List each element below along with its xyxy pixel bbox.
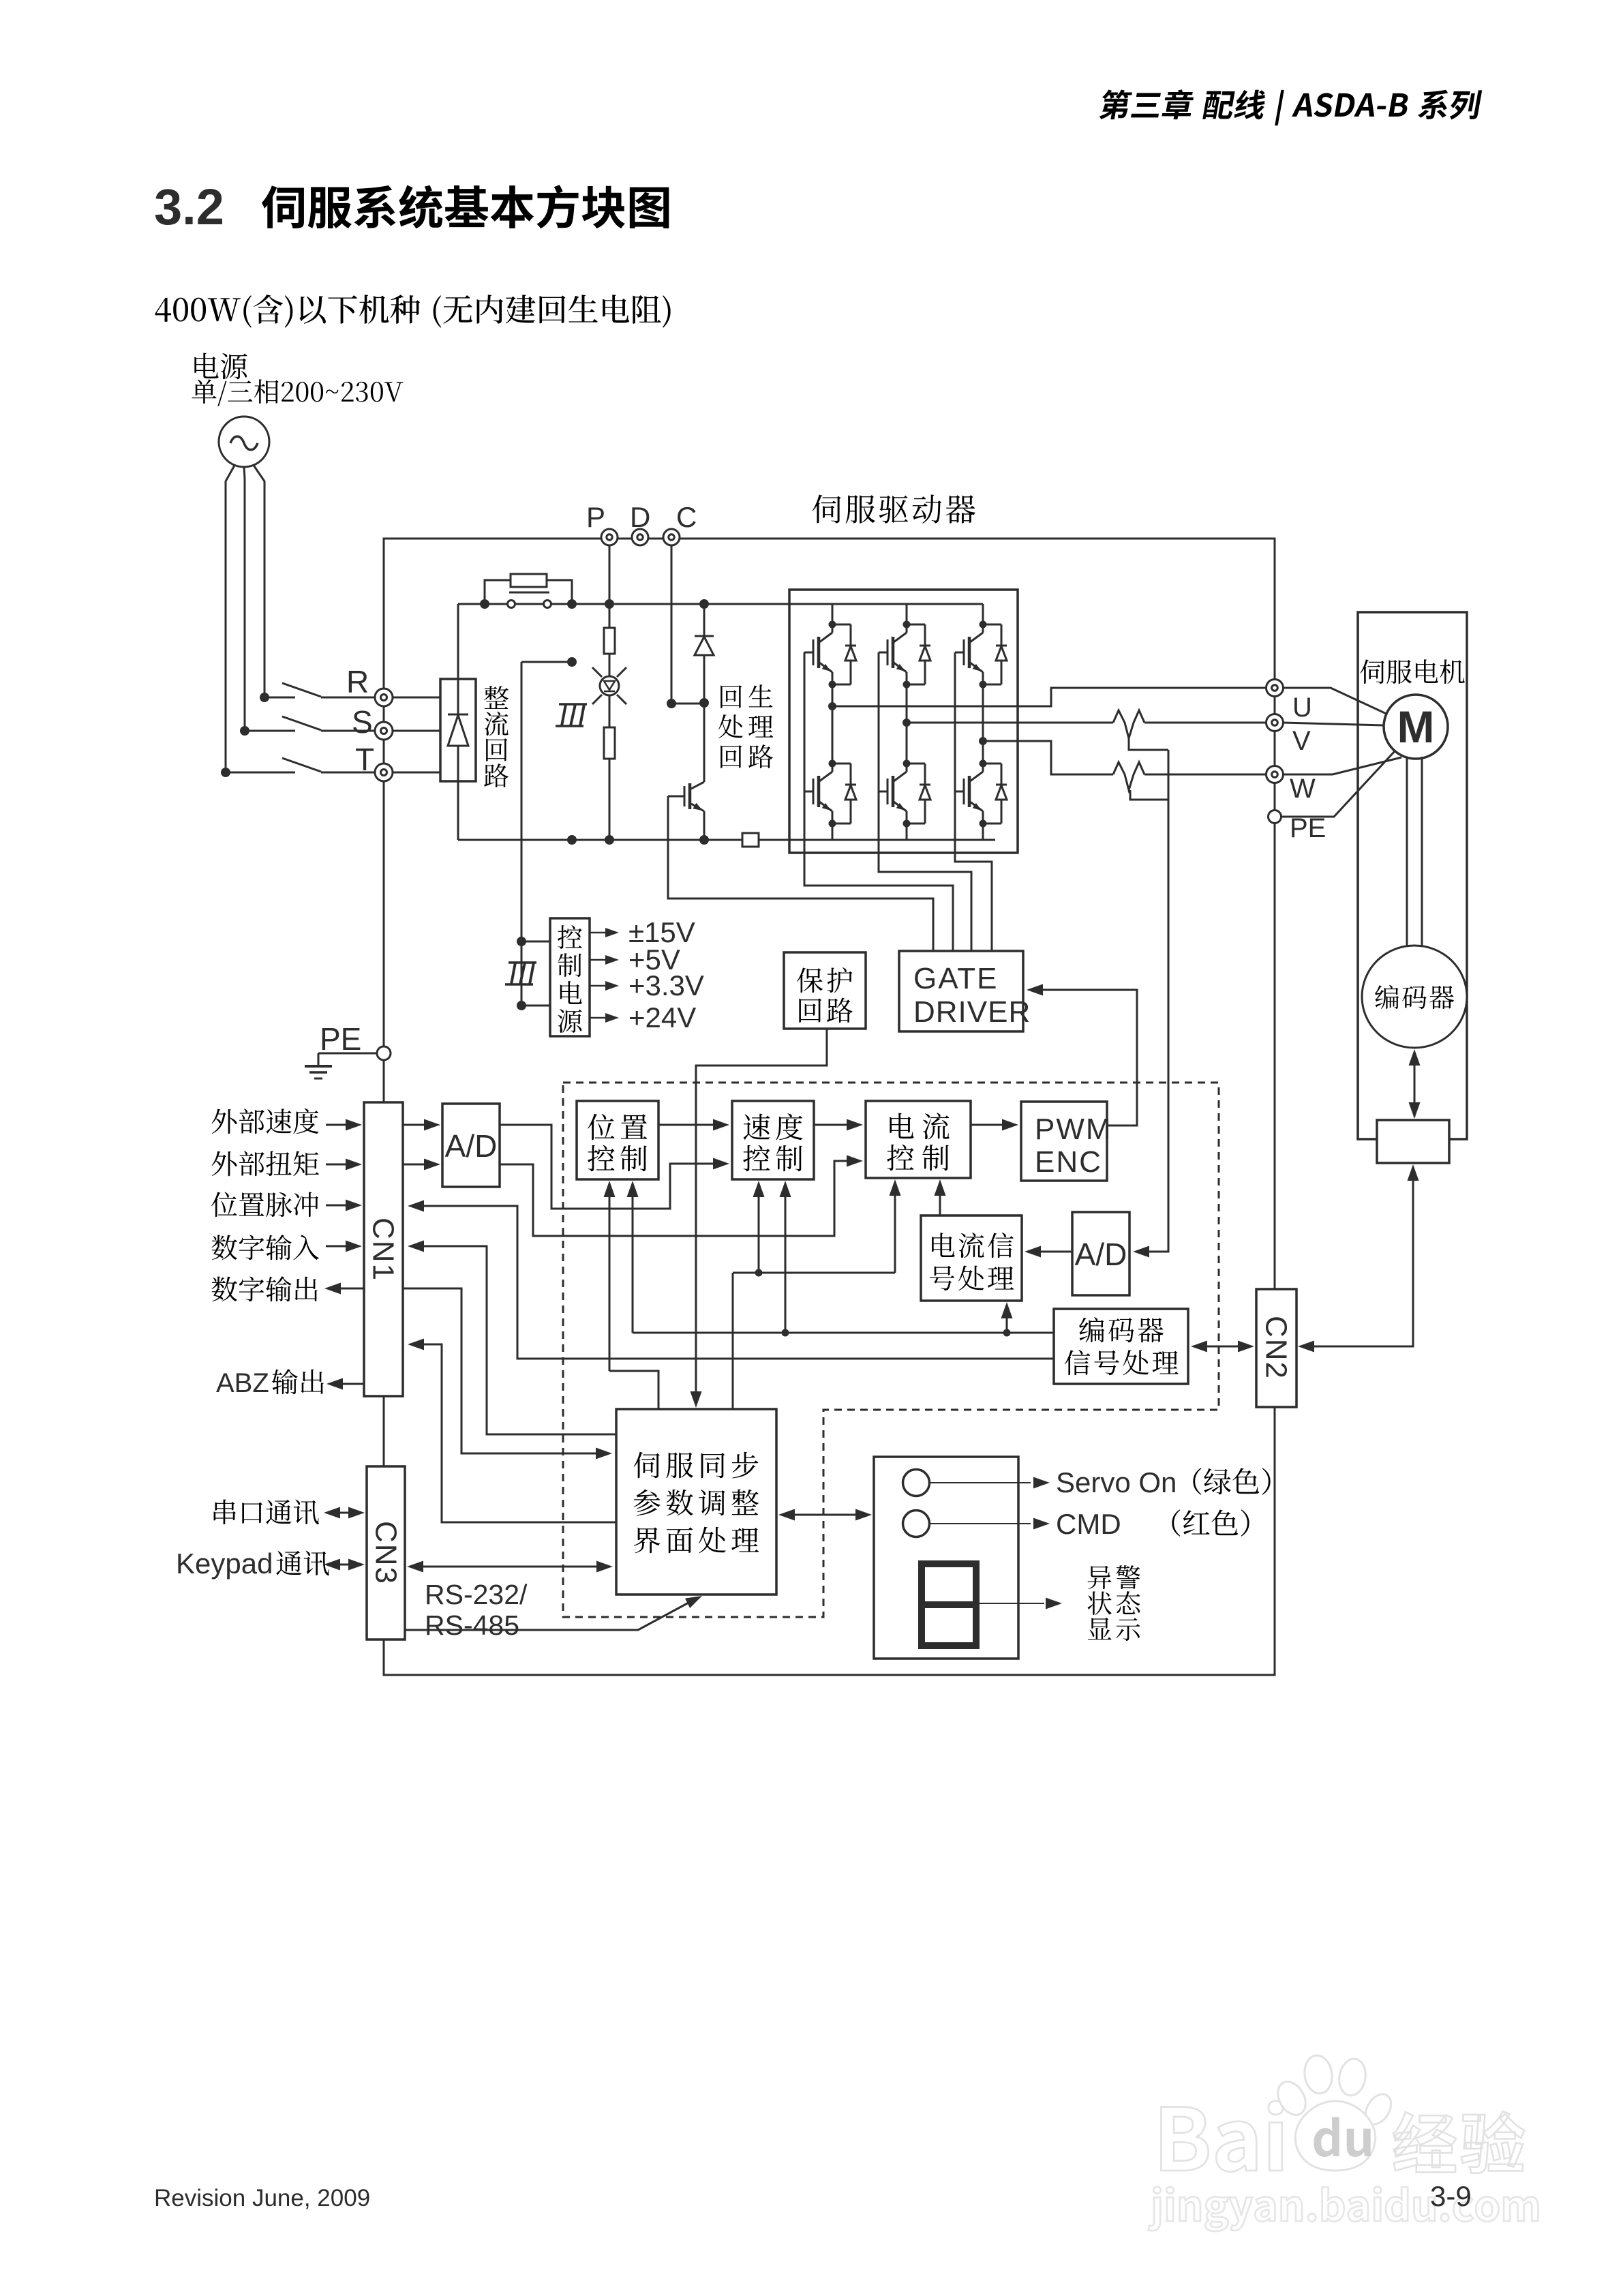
svg-text:CN2: CN2 [1260, 1316, 1293, 1380]
encoder circle 编码器 [1362, 946, 1467, 1048]
current sensor V [1113, 710, 1144, 738]
surge lamp/varistor [600, 676, 619, 695]
svg-text:RS-232/: RS-232/ [425, 1579, 528, 1610]
relay contacts [508, 601, 515, 608]
label 伺服电机 [1360, 659, 1384, 684]
block 电流控制 [866, 1101, 971, 1178]
svg-text:D: D [630, 501, 650, 533]
AC source symbol [219, 417, 269, 467]
arrow 速度控制 to 电流控制 [814, 1124, 847, 1126]
label 数字输入 [211, 1235, 237, 1260]
double arrow 串口通讯 CN3 [338, 1512, 350, 1514]
fuse bypass branch [485, 580, 511, 604]
subtitle 400W note [155, 298, 171, 322]
motor M circle [1384, 695, 1448, 759]
svg-text:Servo On: Servo On [1056, 1466, 1177, 1498]
terminal C [663, 529, 680, 545]
resistor R-chain top [609, 604, 611, 628]
svg-text:U: U [1292, 693, 1312, 723]
label 位置脉冲 [211, 1192, 237, 1217]
DC bus negative [458, 839, 742, 841]
LED CMD [903, 1511, 930, 1537]
block 速度控制 [732, 1101, 814, 1179]
display board box [874, 1457, 1018, 1659]
motor shaft [1406, 757, 1408, 948]
label 电流控制 [890, 1113, 913, 1138]
terminal S [375, 722, 393, 740]
connector CN1 [364, 1102, 403, 1396]
label 编码器 [1375, 985, 1399, 1009]
svg-text:C: C [676, 501, 697, 533]
ground symbol [318, 1053, 377, 1055]
wire interface to CN2 [1302, 1167, 1413, 1346]
arrow 数字输出 out of CN1 [341, 1288, 364, 1290]
svg-text:PWM: PWM [1035, 1113, 1112, 1146]
double arrow interface to display [791, 1514, 860, 1516]
servo motor box [1358, 612, 1467, 1139]
wires from source to switches [226, 464, 235, 772]
svg-text:A/D: A/D [445, 1128, 498, 1164]
wire bus to rectifier top [457, 604, 459, 679]
arrow A/D to 电流信号处理 [1041, 1251, 1072, 1253]
gate driver box [899, 951, 1023, 1031]
label 速度控制 [744, 1114, 770, 1140]
label 外部速度 [212, 1109, 237, 1134]
seven segment display [922, 1564, 976, 1646]
wire PWM to gate driver [1042, 990, 1137, 1126]
svg-text:Revision June, 2009: Revision June, 2009 [154, 2185, 370, 2211]
svg-text:S: S [352, 704, 373, 740]
terminal U [1266, 680, 1284, 697]
switch T [226, 772, 295, 774]
control power outputs [590, 932, 612, 934]
label 伺服同步参数调整界面处理 [634, 1452, 660, 1478]
wire CN1 digital in to interface [403, 1288, 596, 1453]
svg-text:Keypad: Keypad [176, 1547, 273, 1580]
core marks III near control power [509, 961, 536, 964]
wire 编码器信号处理 to CN1 [423, 1206, 1054, 1359]
label 外部扭矩 [212, 1151, 237, 1177]
double arrow 编码器信号处理 CN2 [1205, 1346, 1241, 1348]
connector CN2 [1256, 1289, 1296, 1407]
core marks III near rectifier [559, 703, 587, 706]
svg-text:M: M [1397, 701, 1435, 752]
svg-text:W: W [1290, 774, 1316, 804]
wire interface cmd line [733, 1272, 895, 1274]
wire CN3 diagonal to interface [405, 1602, 690, 1630]
block 位置控制 [577, 1101, 658, 1179]
svg-text:+3.3V: +3.3V [628, 969, 704, 1001]
svg-text:ENC: ENC [1035, 1145, 1102, 1179]
node T junction [221, 768, 230, 777]
svg-text:3-9: 3-9 [1430, 2180, 1472, 2212]
arrows into CN1 inputs [326, 1124, 346, 1126]
terminal V [1266, 714, 1284, 731]
IGBT leg 1 [832, 604, 834, 624]
rectifier block 整流回路 [440, 679, 476, 781]
wire V output [907, 722, 1113, 724]
wire A/D out2 to 电流控制 [500, 1161, 847, 1236]
block A/D current [1072, 1212, 1129, 1295]
wire C drop [671, 545, 673, 704]
encoder feedback bus [633, 1332, 1054, 1334]
IGBT leg 2 [906, 604, 908, 624]
double arrow encoder-interface [1414, 1053, 1416, 1117]
label 异警状态显示 [1088, 1566, 1112, 1589]
double arrow CN3 to interface [419, 1566, 598, 1568]
current sensor W [1113, 762, 1144, 790]
wire W output [983, 741, 1113, 774]
block 伺服同步参数调整界面处理 [616, 1409, 776, 1595]
brake gate wire to gate driver [668, 796, 684, 798]
switch S [245, 730, 295, 732]
double arrow Keypad CN3 [338, 1564, 350, 1566]
svg-text:GATE: GATE [913, 962, 999, 995]
shunt resistor [742, 833, 759, 847]
svg-text:RS-485: RS-485 [425, 1610, 519, 1641]
label 电流信号处理 [932, 1233, 955, 1257]
wire to control power [521, 661, 572, 663]
svg-text:P: P [586, 501, 605, 533]
svg-text:3.2: 3.2 [154, 179, 224, 235]
wire sensors to A/D [1137, 750, 1168, 1252]
control power box 控制电源 [550, 918, 590, 1036]
terminal D [632, 529, 648, 545]
LED Servo On [903, 1470, 930, 1496]
label 整流回路 [484, 686, 509, 709]
wires terminals to rectifier [393, 697, 440, 699]
label 保护回路 [797, 967, 823, 993]
protection circuit box 保护回路 [784, 952, 866, 1029]
wire 7seg to label [979, 1603, 1044, 1604]
svg-text:ABZ: ABZ [216, 1368, 269, 1398]
IGBT power module box [789, 590, 1018, 853]
label 数字输出 [211, 1276, 237, 1301]
wire protection to interface block [696, 1029, 827, 1393]
label 编码器信号处理 [1079, 1317, 1104, 1342]
arrow 位置控制 to 速度控制 [658, 1124, 713, 1126]
svg-text:+24V: +24V [628, 1001, 696, 1033]
brake transistor Q1 [703, 703, 706, 782]
terminal W [1266, 766, 1284, 783]
arrow 电流信号处理 to 电流控制 [939, 1187, 941, 1215]
DC bus positive [458, 603, 983, 605]
terminal T [375, 764, 393, 781]
fuse [511, 574, 547, 587]
label servo drive 伺服驱动器 [813, 494, 841, 523]
resistor R-chain bottom [609, 695, 611, 727]
wire interface to 位置控制 [609, 1188, 611, 1371]
wire interface to CN1 digital out [423, 1246, 616, 1434]
servo drive outline box [384, 539, 1275, 1675]
block 编码器信号处理 [1054, 1309, 1188, 1384]
PE terminal circle [377, 1046, 391, 1060]
svg-text:A/D: A/D [1075, 1237, 1127, 1272]
gate wires to gate driver [804, 652, 953, 951]
switch R [264, 697, 295, 699]
svg-text:CMD: CMD [1056, 1508, 1121, 1540]
connector CN3 [367, 1466, 405, 1640]
dashed control board boundary [563, 1083, 1219, 1617]
block 电流信号处理 [921, 1215, 1022, 1301]
label 控制电源 [558, 925, 582, 949]
arrow 电流控制 to PWM [971, 1124, 1002, 1126]
label 回生处理回路 [721, 685, 742, 708]
brake diode [703, 604, 706, 636]
block A/D input [442, 1104, 500, 1187]
terminal R [375, 689, 393, 706]
wire A/D out1 to 速度控制 [500, 1125, 713, 1209]
terminal PE [1269, 811, 1281, 824]
svg-text:PE: PE [320, 1021, 361, 1057]
label 串口通讯 [214, 1500, 237, 1525]
wire P drop [609, 545, 611, 604]
wire interface to CN1 lower [423, 1344, 616, 1522]
terminal P [601, 529, 618, 545]
wire U output [832, 688, 1266, 706]
svg-text:CN3: CN3 [369, 1521, 403, 1585]
block PWM ENC [1021, 1102, 1107, 1181]
svg-text:DRIVER: DRIVER [913, 995, 1031, 1029]
wire LED2 label [930, 1523, 1031, 1524]
arrow ABZ输出 out of CN1 [343, 1383, 364, 1385]
node R junction [260, 693, 269, 702]
svg-text:PE: PE [1290, 813, 1326, 843]
svg-text:T: T [355, 742, 374, 777]
node S junction [240, 726, 249, 736]
svg-text:R: R [346, 664, 369, 699]
label power source 电源 [194, 353, 218, 378]
svg-text:CN1: CN1 [367, 1218, 400, 1282]
wire LED1 label [930, 1482, 1031, 1483]
encoder interface block [1377, 1120, 1449, 1163]
svg-text:V: V [1292, 726, 1311, 756]
label 位置控制 [588, 1114, 615, 1140]
wires terminals to motor [1282, 688, 1388, 714]
header chapter title [1098, 90, 1132, 120]
wire rectifier bottom [457, 781, 459, 840]
arrows CN1 to A/D [403, 1124, 424, 1126]
watermark baidu logo [1161, 2107, 1208, 2171]
IGBT leg 3 [982, 604, 984, 624]
